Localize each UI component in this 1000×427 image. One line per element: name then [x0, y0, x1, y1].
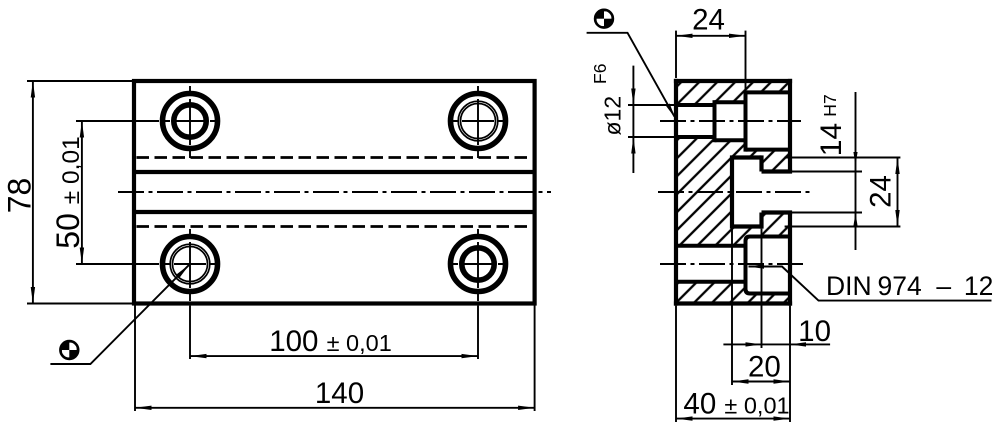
top counterbore floor line [746, 148, 791, 152]
bottom hole bore floor line [676, 280, 746, 284]
surface symbol top [594, 9, 614, 29]
svg-text:24: 24 [692, 3, 725, 36]
dimension 100 line [190, 355, 478, 357]
hole top-right counterbore circle [451, 94, 506, 149]
dimension 140 extension line right [534, 306, 536, 412]
hole bottom-left crosshair horizontal [162, 263, 218, 265]
dimension 40 line [676, 418, 790, 420]
leader from surface symbol to bottom-left hole [50, 265, 189, 364]
dimension 10 arrow right [790, 342, 806, 346]
leader from top surface symbol to section left face [587, 33, 675, 117]
dimension 10 arrow left [746, 342, 762, 346]
dimension 100 arrow right [462, 354, 479, 358]
DIN 974 leader arrowhead [748, 264, 764, 268]
svg-text:H7: H7 [820, 94, 840, 116]
dimension o12 extension bottom [628, 136, 674, 138]
svg-text:20: 20 [748, 351, 781, 384]
bottom hole centerline [660, 263, 803, 265]
dimension 78 arrow top [31, 81, 35, 98]
hole bottom-left thin circle outer [170, 244, 210, 284]
dimension 20 arrow right [774, 379, 791, 383]
hidden T-slot wide edge top (dashed) [137, 156, 533, 159]
hatch fill top band [676, 81, 790, 105]
hidden T-slot wide edge bottom (dashed) [137, 225, 533, 228]
dimension 24 top arrow right [729, 34, 746, 38]
dimension 24 right extension bottom [785, 226, 901, 228]
plate outline front view [134, 81, 535, 304]
hole top-right crosshair vertical [477, 86, 479, 158]
hole bottom-right extension to 100-dim [477, 306, 479, 359]
top counterbore ceiling line [746, 90, 791, 94]
hole top-left crosshair vertical [189, 86, 191, 158]
hole top-right thin circle inner [461, 104, 496, 139]
dimension 140 arrow left [135, 406, 152, 410]
dimension 24 top line [676, 35, 746, 37]
dimension 20 extension line through bottom hole [731, 229, 733, 385]
top hole o14 floor line [715, 138, 746, 142]
svg-text:78: 78 [2, 178, 38, 214]
top hole step wall [713, 100, 717, 142]
svg-text:14: 14 [815, 123, 848, 156]
hole bottom-left extension to 100-dim [189, 306, 191, 359]
dimension 10/20/40 extension right face [789, 306, 791, 422]
dimension 140 line [135, 407, 535, 409]
hole bottom-right counterbore circle [451, 237, 506, 292]
hatch fill bottom band [676, 282, 790, 304]
hole top-left bore circle [174, 105, 206, 137]
dimension o12 arrow lower [631, 137, 635, 154]
dimension 40 arrow left [676, 416, 693, 420]
dimension 40 arrow right [774, 416, 791, 420]
dimension 14H7 line [855, 92, 857, 250]
bottom hole bore ceiling line [676, 244, 746, 248]
dimension 50 extension line top [76, 120, 159, 122]
DIN 974 leader inside counterbore [749, 267, 992, 301]
leader arrowhead at hole center [177, 265, 190, 278]
section top edge [674, 79, 792, 83]
dimension 78 extension line top [27, 80, 134, 82]
dimension 50 arrow bottom [80, 248, 84, 265]
svg-text:–: – [936, 271, 951, 301]
hole bottom-right bore circle [462, 248, 494, 280]
dimension 20 arrow left [732, 379, 749, 383]
hatch fill middle block [676, 137, 790, 246]
dimension 14H7 arrow lower [853, 213, 857, 226]
section right face upper part [788, 79, 792, 172]
dimension 78 line [32, 81, 34, 304]
dimension 24 right arrow top [895, 158, 899, 175]
dimension 50 line [81, 121, 83, 264]
bottom counterbore DIN974 outline [746, 237, 791, 294]
dimension 14H7 extension: slot opening top extended [792, 171, 862, 173]
svg-text:100 ± 0,01: 100 ± 0,01 [269, 325, 392, 358]
slot opening edge bottom [134, 210, 535, 214]
section left face [674, 79, 678, 306]
svg-text:24: 24 [865, 175, 898, 208]
dimension 78 extension line bottom [27, 303, 134, 305]
slot centerline [658, 191, 812, 193]
hole bottom-right crosshair horizontal [450, 263, 506, 265]
dimension 140 extension line left [134, 306, 136, 412]
dimension 40 extension left face [675, 306, 677, 422]
dimension 24 right extension top [785, 157, 901, 159]
svg-text:F6: F6 [590, 64, 610, 84]
T-slot opening top edge [762, 169, 793, 173]
dimension 24 right arrow bottom [895, 210, 899, 227]
T-slot lip wall lower [759, 213, 763, 229]
top counterbore wall [744, 90, 748, 151]
dimension 24 top extension left [675, 31, 677, 78]
hole bottom-left counterbore circle [163, 237, 218, 292]
dimension 24 top arrow left [676, 34, 693, 38]
section bottom edge [674, 301, 792, 305]
hole top-right crosshair horizontal [450, 120, 506, 122]
hole top-right thin circle outer [458, 101, 498, 141]
T-slot opening bottom edge [762, 210, 793, 214]
top hole centerline [660, 120, 801, 122]
svg-text:974: 974 [878, 271, 922, 301]
dimension 14H7 extension: slot opening bottom extended [792, 212, 862, 214]
hole bottom-left crosshair vertical [189, 229, 191, 306]
dimension 24 top extension right [745, 31, 747, 90]
svg-text:DIN: DIN [826, 271, 872, 301]
dimension 14H7 arrow upper [853, 152, 857, 165]
hole top-left counterbore circle [163, 94, 218, 149]
dimension 24 right line [897, 158, 899, 227]
dimension o12 arrow upper [631, 89, 635, 106]
main horizontal centerline [118, 191, 551, 193]
hole bottom-left thin circle inner [173, 247, 208, 282]
dimension 50 extension line bottom [76, 263, 159, 265]
section right face lower part [788, 213, 792, 306]
T-slot lip wall upper [759, 155, 763, 171]
svg-text:ø12: ø12 [600, 96, 626, 136]
dimension 140 arrow right [518, 406, 535, 410]
dimension o12 line [632, 66, 634, 173]
svg-text:12: 12 [964, 271, 993, 301]
dimension 10 extension line through counterbore [761, 229, 763, 348]
surface symbol bottom-left [60, 340, 80, 360]
dimension 78 arrow bottom [31, 287, 35, 304]
top hole o14 ceiling line [715, 100, 746, 104]
dimension 50 arrow top [80, 121, 84, 138]
svg-text:140: 140 [315, 377, 364, 410]
T-slot wide top edge [732, 155, 762, 159]
dimension 100 arrow left [190, 354, 207, 358]
leader arrowhead at left face [666, 104, 676, 119]
top hole bore ceiling line [676, 103, 715, 107]
dimension 10 line [723, 343, 830, 345]
top hole bore floor line [676, 135, 715, 139]
slot opening edge top [134, 170, 535, 174]
T-slot wide bottom edge [732, 224, 762, 228]
svg-text:40 ± 0,01: 40 ± 0,01 [683, 387, 789, 420]
dimension 20 line [732, 381, 790, 383]
T-slot bottom wall [730, 155, 734, 228]
svg-text:10: 10 [798, 315, 831, 348]
hole bottom-right crosshair vertical [477, 229, 479, 306]
hole top-left crosshair horizontal [162, 120, 218, 122]
dimension o12 extension top [628, 104, 674, 106]
